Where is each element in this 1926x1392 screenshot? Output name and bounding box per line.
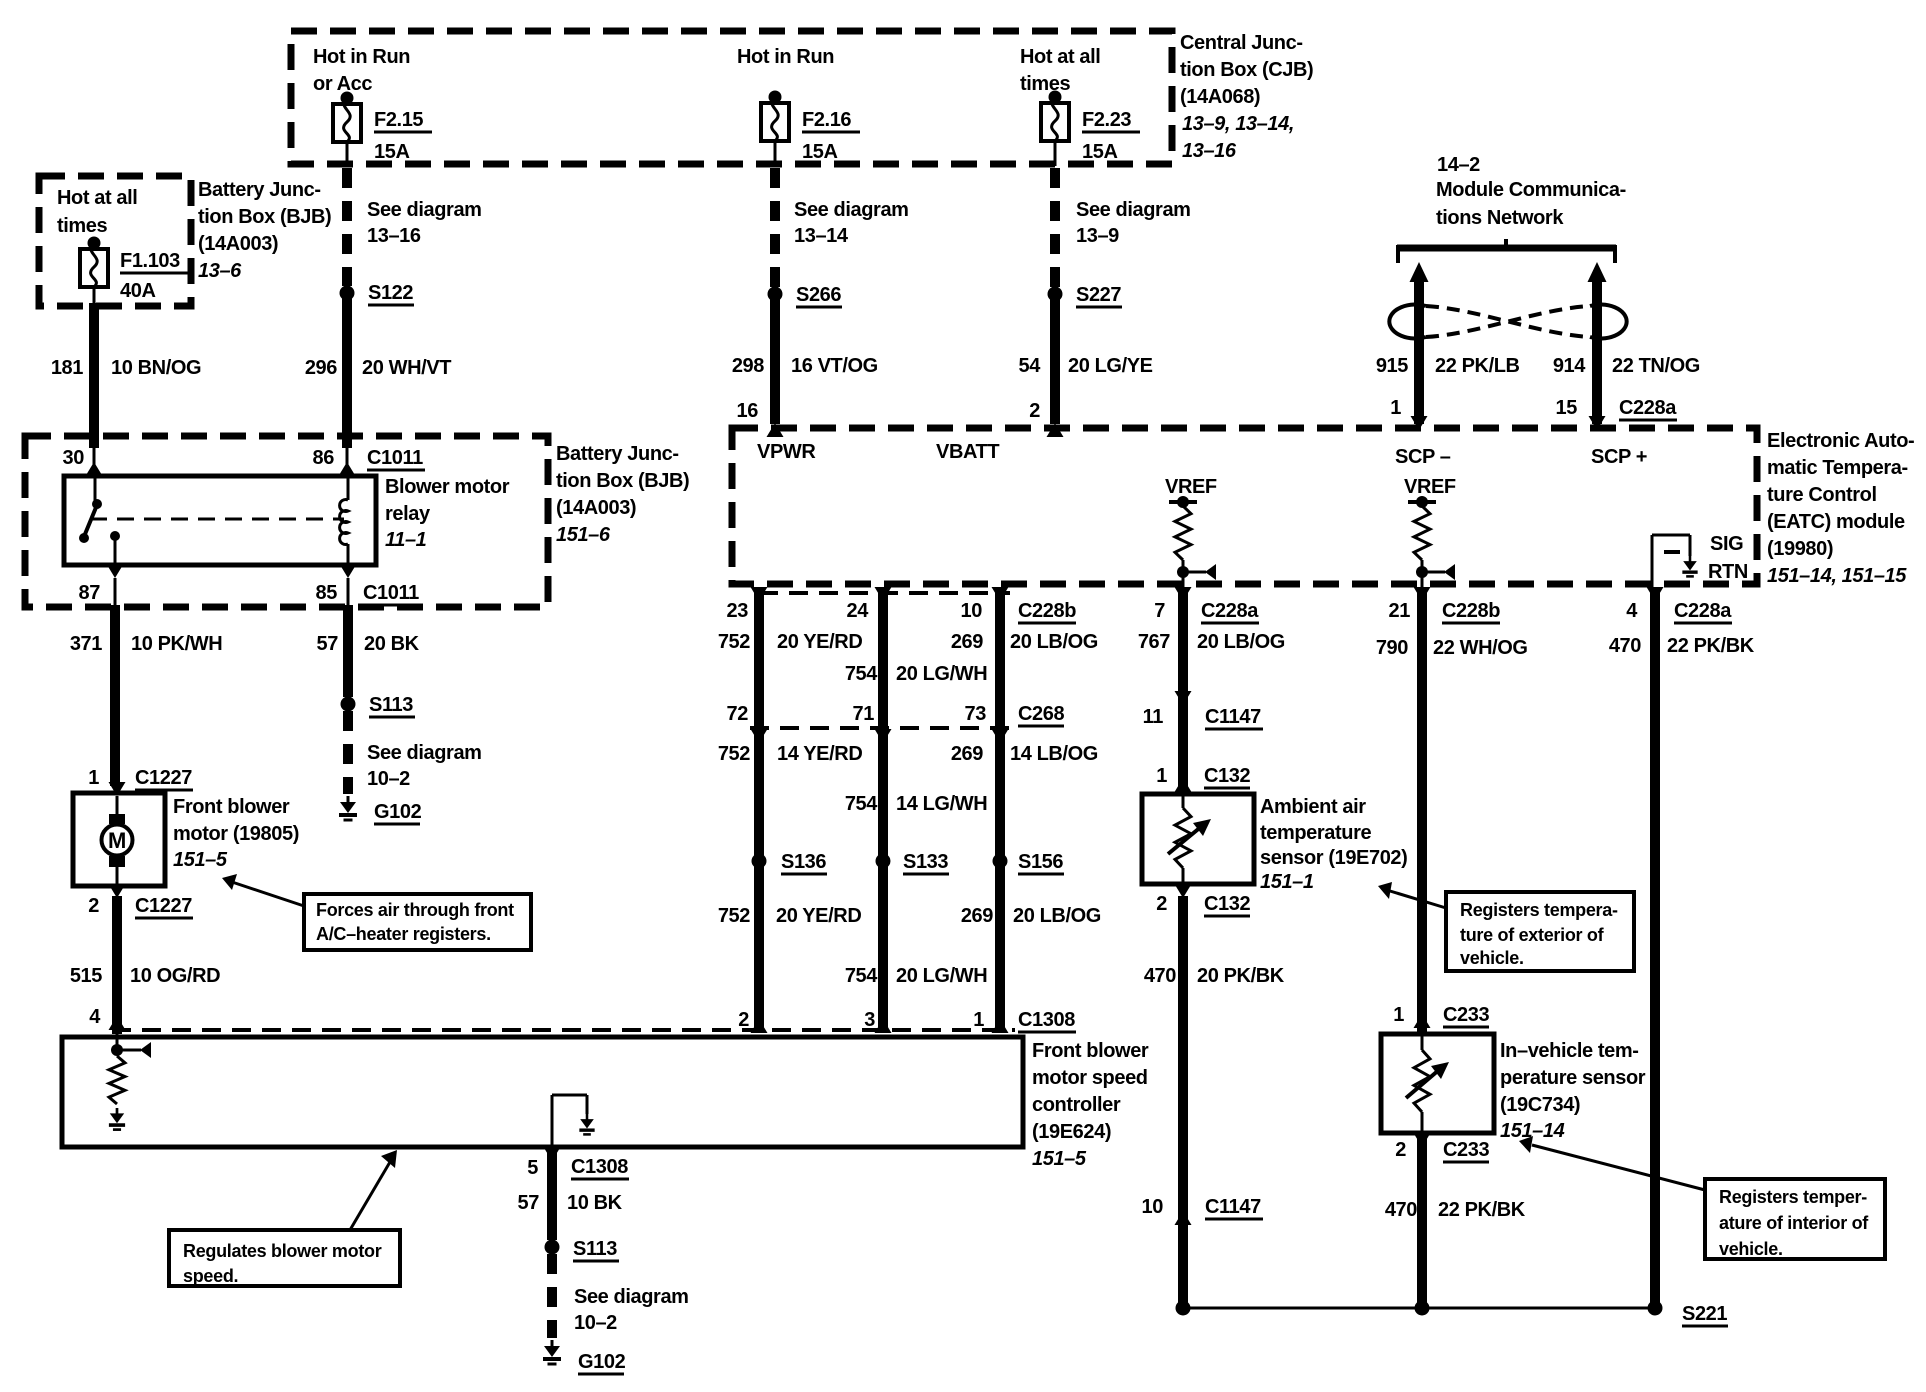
wire 54 20 LG/YE from F2.23 via S227 to EATC pin 2 VBATT: [1054, 141, 1057, 287]
pin 86 arrow and connector C1011 label: [313, 447, 425, 476]
svg-text:(14A003): (14A003): [198, 233, 278, 255]
svg-text:times: times: [57, 215, 108, 237]
svg-text:motor (19805): motor (19805): [173, 823, 299, 845]
svg-text:4: 4: [89, 1006, 101, 1028]
svg-text:Hot at all: Hot at all: [1020, 46, 1100, 68]
wire 470 22 PK/BK sensor to S221: [1385, 1135, 1526, 1308]
svg-text:11: 11: [1143, 706, 1164, 728]
svg-text:(19E624): (19E624): [1032, 1121, 1111, 1143]
svg-text:20 PK/BK: 20 PK/BK: [1197, 965, 1285, 987]
connector C1147 pin 10: [1142, 1196, 1263, 1225]
wire 914 22 TN/OG (SCP+) with up arrow: [1553, 262, 1700, 424]
svg-text:1: 1: [88, 767, 99, 789]
svg-text:73: 73: [965, 703, 987, 725]
pin 24 arrow and label: [847, 587, 892, 622]
svg-text:M: M: [108, 828, 126, 853]
svg-text:C233: C233: [1443, 1004, 1489, 1026]
blower motor relay box: [64, 476, 376, 565]
svg-text:20 LG/YE: 20 LG/YE: [1068, 355, 1153, 377]
svg-text:22 PK/BK: 22 PK/BK: [1438, 1199, 1526, 1221]
svg-text:11–1: 11–1: [385, 529, 427, 551]
svg-text:914: 914: [1553, 355, 1586, 377]
wire 754 20 LG/WH S133 to C1308 pin 3: [845, 861, 987, 1030]
network bracket: [1397, 239, 1616, 263]
svg-text:20 LB/OG: 20 LB/OG: [1010, 631, 1098, 653]
svg-text:RTN: RTN: [1708, 561, 1748, 583]
svg-text:C268: C268: [1018, 703, 1064, 725]
BJB (14A003) 151-6 label: [556, 443, 689, 546]
svg-text:or Acc: or Acc: [313, 73, 372, 95]
svg-text:10–2: 10–2: [574, 1312, 617, 1334]
svg-text:motor speed: motor speed: [1032, 1067, 1148, 1089]
wire 752 20 YE/RD pin 23 to C268 pin 72: [718, 590, 863, 728]
svg-text:13–16: 13–16: [1182, 140, 1237, 162]
connector C1227 pin 1: [88, 767, 193, 796]
svg-text:C228a: C228a: [1201, 600, 1259, 622]
wire 790 22 WH/OG pin 21 to in-vehicle sensor C233 pin 1: [1376, 590, 1528, 1032]
relay actuation dashed line: [90, 518, 344, 521]
wire C1147 pin 10 to S221: [1178, 1211, 1188, 1308]
Blower motor relay 11-1 label: [385, 476, 510, 551]
svg-text:See diagram: See diagram: [367, 742, 482, 764]
svg-text:371: 371: [70, 633, 102, 655]
svg-text:In–vehicle tem-: In–vehicle tem-: [1500, 1040, 1639, 1062]
wire segment S266 to EATC pin 16: [732, 294, 878, 424]
svg-text:30: 30: [63, 447, 85, 469]
svg-text:C1147: C1147: [1205, 1196, 1261, 1218]
svg-text:(14A003): (14A003): [556, 497, 636, 519]
connector C132 pin 2: [1156, 884, 1250, 916]
pin 2 arrow at EATC: [1029, 400, 1063, 437]
controller internal ground (pin 5 side): [552, 1095, 595, 1145]
svg-text:752: 752: [718, 905, 750, 927]
S221 junction dot middle: [1415, 1301, 1430, 1316]
SIG RTN internal ground: [1652, 533, 1748, 590]
svg-text:71: 71: [853, 703, 875, 725]
svg-text:2: 2: [1156, 893, 1167, 915]
svg-text:57: 57: [317, 633, 339, 655]
svg-text:times: times: [1020, 73, 1071, 95]
svg-text:S133: S133: [903, 851, 948, 873]
svg-text:G102: G102: [578, 1351, 626, 1373]
svg-text:22 PK/BK: 22 PK/BK: [1667, 635, 1755, 657]
svg-text:C228b: C228b: [1018, 600, 1076, 622]
svg-text:13–6: 13–6: [198, 260, 242, 282]
Ambient air temperature sensor label: [1260, 796, 1407, 893]
svg-text:Registers tempera-: Registers tempera-: [1460, 900, 1618, 920]
label Hot at all times (for F2.23): [1020, 46, 1100, 95]
svg-text:Central Junc-: Central Junc-: [1180, 32, 1303, 54]
wire 57 20 BK from relay 85 to S113: [317, 605, 420, 697]
svg-text:10 OG/RD: 10 OG/RD: [130, 965, 220, 987]
svg-text:sensor (19E702): sensor (19E702): [1260, 847, 1407, 869]
svg-text:C228a: C228a: [1619, 397, 1677, 419]
svg-text:4: 4: [1626, 600, 1638, 622]
connector C1308 pin 5: [527, 1147, 629, 1179]
Battery Junction Box (BJB) dashed enclosure (top left): [39, 176, 191, 306]
svg-text:Registers temper-: Registers temper-: [1719, 1187, 1867, 1207]
svg-text:F1.103: F1.103: [120, 250, 180, 272]
fuse F2.15 15A: [333, 92, 432, 164]
VREF internal resistor (pin 7 side): [1165, 476, 1217, 508]
C1308 pin 1 arrow and label: [973, 1009, 1076, 1033]
svg-text:20 LB/OG: 20 LB/OG: [1197, 631, 1285, 653]
pin 7 arrow and connector C228a label: [1154, 587, 1259, 623]
svg-text:ture of exterior of: ture of exterior of: [1460, 925, 1605, 945]
BJB (14A003) 13-6 label: [198, 179, 331, 282]
connector C233 pin 2: [1395, 1133, 1489, 1162]
svg-text:temperature: temperature: [1260, 822, 1371, 844]
wire 371 10 PK/WH from relay 87 to front blower motor: [70, 605, 222, 786]
fuse F1.103 40A: [80, 237, 189, 303]
callout Registers temperature of exterior of vehicle: [1446, 892, 1634, 971]
see diagram 10-2 note (lower): [574, 1286, 689, 1334]
svg-text:F2.16: F2.16: [802, 109, 851, 131]
VREF internal resistor (pin 21 side): [1404, 476, 1456, 508]
In-vehicle temperature sensor label: [1500, 1040, 1646, 1142]
dashed wire S113 to G102 (lower): [547, 1254, 557, 1338]
svg-text:tion Box (CJB): tion Box (CJB): [1180, 59, 1313, 81]
svg-text:151–6: 151–6: [556, 524, 611, 546]
svg-text:C1011: C1011: [363, 582, 419, 604]
svg-text:perature sensor: perature sensor: [1500, 1067, 1646, 1089]
wire 269 14 LB/OG C268 to S156: [951, 730, 1098, 856]
svg-text:Hot in Run: Hot in Run: [737, 46, 834, 68]
svg-text:269: 269: [951, 631, 983, 653]
svg-text:VBATT: VBATT: [936, 441, 999, 463]
svg-text:SCP –: SCP –: [1395, 446, 1451, 468]
svg-text:181: 181: [51, 357, 83, 379]
svg-text:Module Communica-: Module Communica-: [1436, 179, 1626, 201]
svg-text:S221: S221: [1682, 1303, 1727, 1325]
svg-text:151–5: 151–5: [173, 849, 228, 871]
svg-text:A/C–heater registers.: A/C–heater registers.: [316, 924, 491, 944]
connector C268 dashed line: [750, 726, 1010, 730]
wire 269 20 LB/OG pin 10 to C268 pin 73: [951, 590, 1098, 728]
svg-text:72: 72: [727, 703, 749, 725]
svg-text:10 PK/WH: 10 PK/WH: [131, 633, 222, 655]
svg-text:Battery Junc-: Battery Junc-: [556, 443, 679, 465]
wire 181 10 BN/OG from F1.103 to relay pin 30: [51, 287, 201, 466]
svg-text:(19C734): (19C734): [1500, 1094, 1580, 1116]
svg-text:790: 790: [1376, 637, 1408, 659]
connector C1308 dashed line: [112, 1028, 1015, 1032]
C268 exit arrows: [751, 729, 1009, 743]
callout arrow to controller: [350, 1150, 397, 1230]
svg-text:22 WH/OG: 22 WH/OG: [1433, 637, 1528, 659]
svg-text:10–2: 10–2: [367, 768, 410, 790]
svg-text:752: 752: [718, 631, 750, 653]
pin 1 label at C228a: [1390, 397, 1427, 430]
svg-text:C228a: C228a: [1674, 600, 1732, 622]
C1308 pin 3 arrow: [864, 1009, 891, 1033]
fuse F2.23 15A: [1041, 91, 1140, 164]
svg-text:Regulates blower motor: Regulates blower motor: [183, 1241, 382, 1261]
relay switch contact: [79, 476, 102, 543]
svg-text:C132: C132: [1204, 893, 1250, 915]
svg-text:298: 298: [732, 355, 764, 377]
svg-text:10 BK: 10 BK: [567, 1192, 623, 1214]
svg-text:C228b: C228b: [1442, 600, 1500, 622]
svg-text:14 LG/WH: 14 LG/WH: [896, 793, 987, 815]
svg-text:tion Box (BJB): tion Box (BJB): [556, 470, 689, 492]
svg-text:S266: S266: [796, 284, 841, 306]
svg-text:752: 752: [718, 743, 750, 765]
svg-text:13–9: 13–9: [1076, 225, 1119, 247]
svg-text:(14A068): (14A068): [1180, 86, 1260, 108]
svg-text:151–14, 151–15: 151–14, 151–15: [1767, 565, 1907, 587]
CJB label text: [1180, 32, 1313, 162]
wire 298 16 VT/OG from F2.16 via S266 to EATC pin 16 VPWR: [774, 141, 777, 287]
relay coil: [340, 476, 357, 607]
svg-text:10 BN/OG: 10 BN/OG: [111, 357, 201, 379]
svg-text:16: 16: [737, 400, 759, 422]
see diagram 10-2 note: [367, 742, 482, 790]
svg-text:vehicle.: vehicle.: [1719, 1239, 1783, 1259]
splice S227: [1048, 284, 1123, 307]
svg-text:matic Tempera-: matic Tempera-: [1767, 457, 1908, 479]
wire 470 22 PK/BK pin 4 to S221: [1609, 590, 1755, 1308]
svg-text:(19980): (19980): [1767, 538, 1833, 560]
callout arrow to motor: [222, 874, 304, 906]
svg-text:13–9, 13–14,: 13–9, 13–14,: [1182, 113, 1294, 135]
connector C1227 pin 2: [88, 884, 193, 918]
connector C1308 pin 4 arrow: [89, 1006, 125, 1030]
ground G102: [339, 796, 422, 824]
svg-text:Blower motor: Blower motor: [385, 476, 510, 498]
svg-text:151–5: 151–5: [1032, 1148, 1087, 1170]
svg-text:23: 23: [727, 600, 749, 622]
splice S113: [341, 694, 416, 717]
svg-text:S122: S122: [368, 282, 413, 304]
wire 296 20 WH/VT from F2.15 via S122 to relay pin 86: [346, 142, 349, 286]
wire 269 20 LB/OG S156 to C1308 pin 1: [961, 861, 1101, 1030]
svg-text:754: 754: [845, 965, 878, 987]
wire 752 20 YE/RD S136 to C1308 pin 2: [718, 861, 862, 1030]
Battery Junction Box (BJB) dashed enclosure (relay): [25, 436, 548, 607]
svg-text:S136: S136: [781, 851, 826, 873]
svg-text:470: 470: [1609, 635, 1641, 657]
pin 85 and connector C1011 label: [316, 582, 421, 605]
svg-text:14 YE/RD: 14 YE/RD: [777, 743, 862, 765]
callout Forces air through front A/C-heater registers: [304, 894, 531, 950]
svg-text:Forces air through front: Forces air through front: [316, 900, 514, 920]
EATC module label: [1767, 430, 1914, 587]
pin 21 arrow and connector C228b label: [1389, 587, 1501, 623]
svg-text:14 LB/OG: 14 LB/OG: [1010, 743, 1098, 765]
connector C132 pin 1: [1156, 765, 1250, 792]
svg-text:22 TN/OG: 22 TN/OG: [1612, 355, 1700, 377]
front blower motor speed controller (19E624) box: [62, 1037, 1023, 1147]
callout arrow to ambient sensor: [1378, 882, 1446, 908]
svg-text:86: 86: [313, 447, 335, 469]
svg-text:7: 7: [1154, 600, 1165, 622]
svg-text:20 BK: 20 BK: [364, 633, 420, 655]
wire 754 14 LG/WH C268 to S133: [845, 730, 987, 856]
connector C233 pin 1: [1393, 1004, 1489, 1028]
svg-text:151–1: 151–1: [1260, 871, 1314, 893]
Electronic Automatic Temperature Control (EATC) module dashed enclosure: [732, 428, 1757, 584]
see diagram 13-9 note: [1076, 199, 1191, 247]
svg-text:See diagram: See diagram: [367, 199, 482, 221]
svg-text:ature of interior of: ature of interior of: [1719, 1213, 1869, 1233]
wire 57 10 BK controller to S113: [518, 1147, 623, 1240]
svg-text:S113: S113: [369, 694, 413, 716]
pin 30 arrow and label: [63, 447, 103, 476]
wire 470 20 PK/BK sensor to C1147 pin 10: [1144, 896, 1285, 1225]
svg-text:2: 2: [1029, 400, 1040, 422]
svg-text:tion Box (BJB): tion Box (BJB): [198, 206, 331, 228]
svg-text:C132: C132: [1204, 765, 1250, 787]
svg-text:470: 470: [1385, 1199, 1417, 1221]
svg-text:See diagram: See diagram: [1076, 199, 1191, 221]
ambient air temperature sensor (19E702) box: [1142, 794, 1254, 884]
splice S113 (lower): [545, 1238, 620, 1261]
svg-text:14–2: 14–2: [1437, 154, 1480, 176]
svg-text:relay: relay: [385, 503, 431, 525]
svg-text:C233: C233: [1443, 1139, 1489, 1161]
svg-text:24: 24: [847, 600, 870, 622]
svg-text:20 LB/OG: 20 LB/OG: [1013, 905, 1101, 927]
splice S221 bus wire: [1183, 1307, 1655, 1310]
svg-text:20 WH/VT: 20 WH/VT: [362, 357, 451, 379]
fuse F2.16 15A: [761, 91, 860, 164]
svg-text:G102: G102: [374, 801, 422, 823]
svg-text:C1308: C1308: [1018, 1009, 1075, 1031]
svg-text:1: 1: [1390, 397, 1401, 419]
svg-text:22 PK/LB: 22 PK/LB: [1435, 355, 1520, 377]
splice S133: [876, 851, 950, 874]
wire 915 22 PK/LB (SCP-) with up arrow: [1376, 262, 1520, 424]
Central Junction Box (CJB) dashed enclosure: [291, 31, 1172, 164]
svg-text:C1011: C1011: [367, 447, 423, 469]
svg-text:Electronic Auto-: Electronic Auto-: [1767, 430, 1914, 452]
callout Registers temperature of interior of vehicle: [1705, 1179, 1885, 1259]
see diagram 13-14 note: [794, 199, 909, 247]
svg-text:13–16: 13–16: [367, 225, 421, 247]
svg-text:5: 5: [527, 1157, 538, 1179]
twisted pair symbol: [1389, 305, 1626, 339]
wire segment S227 to EATC pin 2: [1019, 294, 1153, 424]
pin 4 arrow and connector C228a label: [1626, 587, 1732, 623]
svg-text:2: 2: [1395, 1139, 1406, 1161]
svg-text:(EATC) module: (EATC) module: [1767, 511, 1905, 533]
svg-text:C1227: C1227: [135, 767, 192, 789]
pin 23 arrow and label: [727, 587, 768, 622]
splice S266: [768, 284, 843, 307]
svg-text:10: 10: [1142, 1196, 1164, 1218]
svg-text:15A: 15A: [374, 141, 410, 163]
svg-text:15: 15: [1556, 397, 1578, 419]
svg-text:ture Control: ture Control: [1767, 484, 1877, 506]
svg-text:Ambient air: Ambient air: [1260, 796, 1366, 818]
svg-text:269: 269: [951, 743, 983, 765]
svg-text:16 VT/OG: 16 VT/OG: [791, 355, 878, 377]
connector C1147 pin 11: [1143, 691, 1263, 729]
Module Communications Network 14-2 label: [1436, 154, 1626, 229]
svg-text:speed.: speed.: [183, 1266, 238, 1286]
wire C1147 to ambient sensor C132 pin 1: [1178, 705, 1188, 792]
svg-text:15A: 15A: [802, 141, 838, 163]
splice S156: [993, 851, 1065, 874]
Front blower motor speed controller label: [1032, 1040, 1149, 1170]
svg-text:470: 470: [1144, 965, 1176, 987]
svg-text:85: 85: [316, 582, 338, 604]
svg-text:296: 296: [305, 357, 337, 379]
callout arrow to in-vehicle sensor: [1519, 1136, 1705, 1190]
svg-text:54: 54: [1019, 355, 1042, 377]
svg-text:10: 10: [961, 600, 983, 622]
svg-text:21: 21: [1389, 600, 1411, 622]
svg-text:VREF: VREF: [1165, 476, 1217, 498]
dashed wire S113 to G102: [343, 711, 353, 794]
svg-text:See diagram: See diagram: [794, 199, 909, 221]
wire 754 20 LG/WH pin 24 to C268 pin 71: [845, 590, 987, 728]
pin 10 arrow and connector C228b label: [961, 587, 1077, 623]
splice S221: [1648, 1301, 1729, 1327]
in-vehicle temperature sensor (19C734) box: [1381, 1034, 1494, 1133]
svg-text:40A: 40A: [120, 280, 156, 302]
svg-text:Front blower: Front blower: [1032, 1040, 1149, 1062]
svg-text:13–14: 13–14: [794, 225, 849, 247]
see diagram 13-16 note: [367, 199, 482, 247]
wire 752 14 YE/RD C268 to S136: [718, 730, 863, 856]
svg-text:SCP +: SCP +: [1591, 446, 1647, 468]
svg-text:1: 1: [1393, 1004, 1404, 1026]
splice S122: [340, 282, 415, 305]
S221 junction dot left: [1176, 1301, 1191, 1316]
connector C228b dashed line: [759, 591, 1010, 595]
svg-text:Battery Junc-: Battery Junc-: [198, 179, 321, 201]
label Hot in Run / or Acc (for F2.15): [313, 46, 410, 95]
svg-text:VREF: VREF: [1404, 476, 1456, 498]
svg-text:754: 754: [845, 793, 878, 815]
svg-text:C1227: C1227: [135, 895, 192, 917]
svg-text:767: 767: [1138, 631, 1170, 653]
wire 515 10 OG/RD from motor to speed controller pin 4: [70, 896, 220, 1034]
svg-text:20 YE/RD: 20 YE/RD: [776, 905, 861, 927]
svg-text:controller: controller: [1032, 1094, 1121, 1116]
svg-text:15A: 15A: [1082, 141, 1118, 163]
svg-text:1: 1: [973, 1009, 984, 1031]
splice S136: [752, 851, 828, 874]
connector C268 pins 72 71 73: [727, 703, 1065, 726]
svg-text:See diagram: See diagram: [574, 1286, 689, 1308]
svg-text:Hot at all: Hot at all: [57, 187, 137, 209]
svg-text:C1308: C1308: [571, 1156, 628, 1178]
wire 767 20 LB/OG pin 7 to C1147 pin 11: [1138, 590, 1285, 705]
svg-text:754: 754: [845, 663, 878, 685]
svg-text:vehicle.: vehicle.: [1460, 948, 1524, 968]
svg-text:SIG: SIG: [1710, 533, 1743, 555]
svg-text:F2.15: F2.15: [374, 109, 423, 131]
svg-text:Front blower: Front blower: [173, 796, 290, 818]
Front blower motor 151-5 label: [173, 796, 299, 871]
svg-text:20 LG/WH: 20 LG/WH: [896, 965, 987, 987]
wire segment S122 to pin 86: [305, 293, 451, 466]
svg-text:S113: S113: [573, 1238, 617, 1260]
svg-text:87: 87: [79, 582, 101, 604]
svg-text:915: 915: [1376, 355, 1408, 377]
svg-text:57: 57: [518, 1192, 540, 1214]
pin 16 arrow at EATC: [737, 400, 784, 437]
ground G102 (lower): [543, 1340, 626, 1374]
pin 15 and connector C228a label: [1556, 397, 1678, 430]
svg-text:tions Network: tions Network: [1436, 207, 1564, 229]
svg-text:VPWR: VPWR: [757, 441, 816, 463]
svg-text:S227: S227: [1076, 284, 1121, 306]
svg-text:S156: S156: [1018, 851, 1063, 873]
